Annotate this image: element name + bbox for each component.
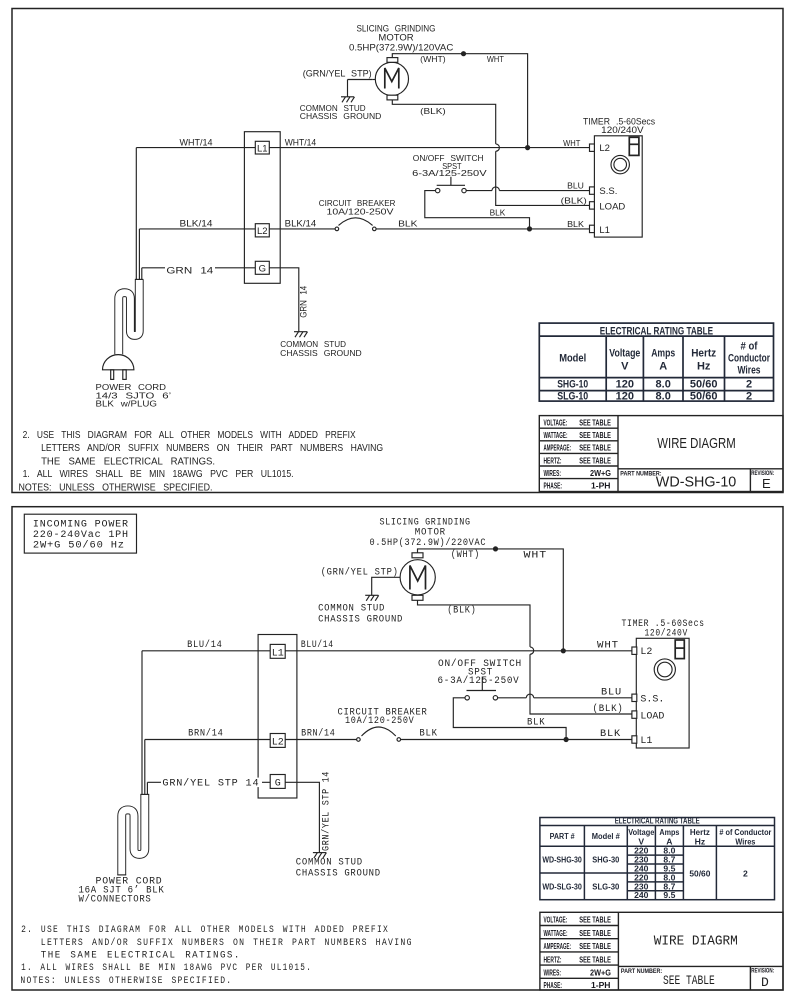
wire hop BLU over BLK (492, 187, 499, 191)
motor M2 (400, 560, 435, 595)
svg-text:AMPERAGE:: AMPERAGE: (544, 443, 572, 453)
svg-text:(BLK): (BLK) (420, 106, 446, 116)
svg-text:10A/120-250V: 10A/120-250V (327, 207, 395, 217)
circuit breaker CB2 (357, 727, 401, 741)
timer U1 body (594, 136, 642, 237)
terminal block TB1 (244, 132, 280, 284)
svg-text:NOTES: UNLESS OTHERWISE SPECIF: NOTES: UNLESS OTHERWISE SPECIFIED. (19, 482, 213, 493)
rating table panel1 text (557, 325, 770, 402)
svg-text:1-PH: 1-PH (591, 980, 611, 990)
svg-text:BLK: BLK (600, 729, 621, 740)
svg-text:(WHT): (WHT) (420, 54, 446, 64)
border frame panel 1 (12, 9, 783, 493)
svg-text:SEE TABLE: SEE TABLE (579, 443, 611, 453)
svg-text:120/240V: 120/240V (601, 125, 644, 136)
wire hop BLU over BLK p2 (526, 694, 533, 698)
svg-text:Voltage: Voltage (609, 348, 640, 360)
terminal TB2 G (270, 775, 285, 789)
svg-text:WATTAGE:: WATTAGE: (544, 928, 568, 938)
svg-text:PHASE:: PHASE: (544, 481, 563, 491)
svg-text:2W+G: 2W+G (590, 968, 611, 978)
svg-text:LOAD: LOAD (640, 711, 664, 722)
svg-text:240: 240 (634, 890, 649, 900)
svg-text:Hertz: Hertz (691, 348, 716, 360)
motor M1 (375, 62, 408, 95)
timer terminal L2 (590, 144, 595, 151)
svg-text:BLU/14: BLU/14 (301, 639, 334, 651)
motor M1 bottom terminal tab (387, 95, 398, 100)
timer terminal L1 (590, 225, 595, 232)
svg-text:BLK/14: BLK/14 (180, 219, 213, 230)
svg-text:PART NUMBER:: PART NUMBER: (621, 968, 662, 975)
title block panel1 (539, 416, 783, 492)
timer U2 body (636, 638, 689, 748)
svg-text:50/60: 50/60 (690, 390, 718, 402)
terminal TB1 L2 (255, 224, 269, 237)
svg-text:THE SAME ELECTRICAL RATINGS.: THE SAME ELECTRICAL RATINGS. (41, 456, 215, 467)
svg-text:BLU: BLU (567, 181, 584, 191)
wire BLK vertical to cord (138, 229, 140, 280)
wire BLU vertical to cord (141, 651, 143, 795)
wire BLK breaker to timer L1 (376, 228, 589, 230)
power cord tube p2 (117, 794, 149, 875)
svg-text:L1: L1 (599, 225, 610, 236)
svg-text:ELECTRICAL RATING TABLE: ELECTRICAL RATING TABLE (600, 325, 713, 337)
svg-text:0.5HP(372.9W)/120VAC: 0.5HP(372.9W)/120VAC (349, 42, 453, 53)
svg-text:A: A (659, 361, 667, 373)
timer terminal LOAD (590, 202, 595, 209)
svg-text:10A/120-250V: 10A/120-250V (345, 715, 414, 727)
svg-text:2W+G 50/60 Hz: 2W+G 50/60 Hz (33, 540, 125, 552)
wire motor WHT lead p2 (418, 549, 564, 651)
terminal TB1 L1 (255, 141, 269, 154)
wire GRN/YEL from cord to ground (147, 782, 319, 852)
notes panel1 (19, 430, 384, 494)
svg-text:BLK: BLK (419, 729, 437, 740)
terminal TB2 L1 (270, 644, 285, 658)
wire motor BLK lead (392, 100, 495, 144)
wire motor BLK lead p2 (418, 600, 531, 647)
svg-text:E: E (762, 476, 771, 491)
svg-text:(WHT): (WHT) (451, 549, 480, 561)
svg-text:SEE TABLE: SEE TABLE (579, 430, 611, 440)
svg-text:Wires: Wires (735, 837, 755, 847)
svg-text:1. ALL WIRES SHALL BE MIN 18AW: 1. ALL WIRES SHALL BE MIN 18AWG PVC PER … (21, 963, 312, 974)
svg-text:BLK: BLK (567, 219, 584, 229)
timer terminal LOAD p2 (632, 711, 637, 718)
svg-text:SHG-30: SHG-30 (592, 855, 619, 865)
on/off switch S2 (465, 677, 498, 701)
svg-text:THE SAME ELECTRICAL RATINGS.: THE SAME ELECTRICAL RATINGS. (41, 950, 241, 961)
svg-text:220-240Vac 1PH: 220-240Vac 1PH (33, 530, 129, 541)
svg-text:NOTES: UNLESS OTHERWISE SPECIF: NOTES: UNLESS OTHERWISE SPECIFIED. (20, 976, 232, 987)
timer selector rect p2 (675, 640, 684, 659)
svg-text:1. ALL WIRES SHALL BE MIN 18AW: 1. ALL WIRES SHALL BE MIN 18AWG PVC PER … (23, 469, 294, 480)
svg-text:WD-SHG-10: WD-SHG-10 (656, 475, 737, 491)
svg-text:6-3A/125-250V: 6-3A/125-250V (438, 675, 520, 687)
svg-text:G: G (259, 264, 266, 275)
wire switch left branch to BLK node (425, 191, 530, 229)
svg-text:PHASE:: PHASE: (544, 980, 563, 990)
wire BRN vertical to cord (144, 740, 146, 795)
svg-text:BRN/14: BRN/14 (301, 728, 335, 740)
svg-text:2. USE THIS DIAGRAM FOR ALL OT: 2. USE THIS DIAGRAM FOR ALL OTHER MODELS… (21, 925, 389, 936)
wire GRN 14 from cord to ground (142, 268, 299, 332)
svg-text:WATTAGE:: WATTAGE: (544, 430, 568, 440)
svg-text:SEE TABLE: SEE TABLE (579, 455, 611, 465)
svg-text:WIRES:: WIRES: (544, 468, 562, 478)
wire BRN/14 from cord to breaker (145, 739, 357, 741)
svg-text:D: D (761, 975, 769, 990)
svg-text:S.S.: S.S. (599, 186, 617, 197)
svg-text:(BLK): (BLK) (561, 196, 587, 206)
wire motor ground lead p2 (372, 577, 400, 595)
motor M2 top terminal tab (412, 553, 423, 558)
title block panel2 (540, 912, 783, 990)
svg-text:WHT: WHT (597, 640, 619, 651)
svg-text:2. USE THIS DIAGRAM FOR ALL OT: 2. USE THIS DIAGRAM FOR ALL OTHER MODELS… (23, 430, 356, 441)
wire motor ground lead (372, 79, 375, 81)
svg-text:LOAD: LOAD (599, 201, 625, 212)
svg-text:BLU/14: BLU/14 (187, 639, 222, 651)
svg-text:WHT/14: WHT/14 (285, 138, 317, 149)
svg-text:CHASSIS GROUND: CHASSIS GROUND (300, 111, 382, 121)
wire GRN vertical to cord (141, 268, 143, 280)
svg-text:Wires: Wires (738, 365, 761, 377)
svg-text:6-3A/125-250V: 6-3A/125-250V (412, 168, 487, 178)
svg-text:120: 120 (616, 379, 634, 391)
junction dot WHT node (525, 145, 530, 150)
timer terminal SS p2 (632, 694, 637, 701)
svg-text:50/60: 50/60 (689, 869, 710, 879)
svg-text:WHT/14: WHT/14 (180, 138, 213, 149)
on/off switch S1 (436, 177, 467, 193)
wire WHT vertical to cord (135, 148, 137, 280)
motor M1 top terminal tab (387, 58, 398, 63)
svg-text:2: 2 (746, 379, 752, 391)
svg-text:(GRN/YEL STP): (GRN/YEL STP) (303, 68, 372, 78)
svg-text:SLG-10: SLG-10 (557, 390, 588, 402)
svg-text:120: 120 (616, 390, 634, 402)
wire BLU switch to timer SS p2 (498, 697, 527, 699)
terminal block TB2 (258, 635, 297, 799)
svg-text:8.0: 8.0 (656, 379, 671, 391)
wire switch left branch to BLK node p2 (453, 698, 566, 740)
svg-text:CHASSIS GROUND: CHASSIS GROUND (296, 868, 381, 879)
wire BLK lead to LOAD (496, 151, 590, 205)
incoming power box (24, 514, 136, 553)
svg-text:BLK: BLK (490, 208, 506, 218)
svg-text:BLK: BLK (398, 219, 418, 229)
wire GRN vertical to cord p2 (146, 782, 148, 794)
svg-text:50/60: 50/60 (690, 379, 718, 391)
svg-text:COMMON STUD: COMMON STUD (296, 858, 363, 869)
svg-text:HERTZ:: HERTZ: (544, 455, 562, 465)
notes panel2 (20, 925, 412, 987)
wire BLK lead to LOAD p2 (530, 654, 632, 714)
timer terminal SS (590, 187, 595, 194)
timer selector rect (629, 137, 639, 155)
plug body (103, 355, 134, 370)
svg-text:WHT: WHT (563, 138, 580, 148)
svg-text:L2: L2 (640, 647, 652, 658)
svg-text:Model: Model (559, 353, 586, 365)
svg-text:BLK: BLK (527, 718, 545, 729)
wire motor WHT lead (392, 54, 527, 148)
circuit breaker CB1 (335, 218, 376, 231)
svg-text:SHG-10: SHG-10 (557, 379, 588, 391)
svg-text:Amps: Amps (651, 348, 675, 360)
svg-text:Hz: Hz (697, 361, 711, 373)
svg-text:8.0: 8.0 (656, 390, 671, 402)
wire BLU/14 from cord to timer L2 (142, 650, 632, 652)
svg-text:2W+G: 2W+G (590, 468, 611, 478)
plug prong left (111, 370, 114, 380)
svg-text:V: V (621, 361, 629, 373)
svg-text:SEE TABLE: SEE TABLE (663, 974, 715, 988)
power cord tube (119, 279, 144, 354)
svg-text:9.5: 9.5 (663, 890, 675, 900)
junction dot motor WHT splice p2 (493, 546, 498, 551)
svg-text:WHT: WHT (524, 551, 548, 562)
wire BLU switch to timer SS (466, 190, 492, 192)
svg-text:1-PH: 1-PH (591, 481, 611, 491)
motor M2 bottom terminal tab (412, 595, 423, 600)
chassis ground symbol left (341, 97, 355, 103)
svg-text:GRN/YEL STP 14: GRN/YEL STP 14 (162, 778, 259, 790)
svg-text:2: 2 (743, 869, 748, 879)
timer terminal L2 p2 (632, 647, 637, 654)
border frame panel 2 (12, 507, 783, 990)
svg-text:L2: L2 (257, 226, 268, 237)
chassis ground symbol left p2 (365, 595, 379, 601)
svg-text:Model #: Model # (592, 831, 620, 841)
svg-text:LETTERS AND/OR SUFFIX NUMBERS: LETTERS AND/OR SUFFIX NUMBERS ON THEIR P… (41, 443, 383, 454)
svg-text:AMPERAGE:: AMPERAGE: (544, 941, 572, 951)
svg-text:120/240V: 120/240V (645, 628, 688, 640)
wire hop BLK over WHT p2 (530, 647, 534, 654)
svg-text:BLK w/PLUG: BLK w/PLUG (96, 398, 158, 408)
wire hop BLK over WHT (496, 144, 500, 151)
svg-text:L2: L2 (599, 143, 610, 154)
junction dot motor WHT splice (461, 51, 466, 56)
svg-text:L1: L1 (640, 736, 652, 747)
terminal TB2 L2 (270, 734, 285, 748)
svg-text:BLU: BLU (601, 687, 622, 698)
svg-text:(BLK): (BLK) (447, 604, 476, 616)
svg-text:WD-SLG-30: WD-SLG-30 (542, 881, 582, 891)
label GRN 14 (165, 266, 215, 277)
title block panel2 text (544, 915, 775, 991)
svg-text:WHT: WHT (487, 54, 504, 64)
svg-text:LETTERS AND/OR SUFFIX NUMBERS: LETTERS AND/OR SUFFIX NUMBERS ON THEIR P… (41, 937, 413, 949)
svg-text:Conductor: Conductor (728, 353, 771, 365)
junction dot BLK node p2 (564, 737, 569, 742)
svg-text:INCOMING POWER: INCOMING POWER (33, 519, 129, 530)
timer knob (611, 155, 629, 173)
svg-text:# of: # of (741, 341, 758, 353)
motor M1 letter (385, 68, 399, 89)
svg-text:ELECTRICAL RATING TABLE: ELECTRICAL RATING TABLE (615, 816, 700, 826)
svg-text:COMMON STUD: COMMON STUD (318, 604, 385, 615)
svg-text:(BLK): (BLK) (593, 703, 624, 715)
chassis ground symbol right (294, 332, 308, 338)
svg-text:L1: L1 (257, 143, 268, 154)
wire BLK breaker to timer L1 (401, 739, 632, 741)
svg-text:CHASSIS GROUND: CHASSIS GROUND (318, 615, 403, 626)
wire BLK/14 from cord to breaker (139, 228, 335, 230)
svg-text:VOLTAGE:: VOLTAGE: (544, 418, 568, 428)
junction dot WHT node p2 (561, 648, 566, 653)
svg-text:BRN/14: BRN/14 (188, 728, 223, 740)
plug prong right (123, 370, 126, 380)
svg-text:BLK/14: BLK/14 (285, 219, 317, 230)
svg-text:SEE TABLE: SEE TABLE (579, 941, 611, 951)
svg-text:GRN 14: GRN 14 (299, 286, 310, 318)
svg-text:GRN/YEL STP 14: GRN/YEL STP 14 (321, 771, 333, 851)
timer terminal L1 p2 (632, 736, 637, 743)
rating table panel1 (539, 323, 773, 401)
timer knob p2 (654, 659, 675, 680)
svg-text:HERTZ:: HERTZ: (544, 954, 562, 964)
motor M2 letter (410, 566, 426, 590)
svg-text:WIRE DIAGRM: WIRE DIAGRM (654, 934, 738, 950)
title block panel1 text (544, 418, 775, 492)
rating table panel2 text (542, 816, 772, 901)
svg-text:REVISION:: REVISION: (751, 967, 774, 974)
svg-text:0.5HP(372.9W)/220VAC: 0.5HP(372.9W)/220VAC (370, 537, 487, 549)
svg-text:2: 2 (746, 390, 752, 402)
svg-text:L2: L2 (272, 737, 284, 748)
svg-text:W/CONNECTORS: W/CONNECTORS (79, 894, 152, 906)
rating table panel2 (540, 818, 775, 900)
svg-text:WD-SHG-30: WD-SHG-30 (542, 855, 582, 865)
svg-text:SLG-30: SLG-30 (592, 881, 619, 891)
svg-text:L1: L1 (272, 648, 284, 659)
svg-text:GRN 14: GRN 14 (166, 266, 213, 277)
svg-text:Hz: Hz (695, 837, 706, 847)
svg-text:PART #: PART # (550, 831, 575, 841)
wire WHT/14 from cord to timer L2 (136, 147, 589, 149)
svg-text:SEE TABLE: SEE TABLE (579, 928, 611, 938)
svg-text:SEE TABLE: SEE TABLE (579, 915, 611, 925)
svg-text:SEE TABLE: SEE TABLE (579, 954, 611, 964)
svg-text:G: G (275, 778, 281, 789)
svg-text:SEE TABLE: SEE TABLE (579, 418, 611, 428)
label GRN/YEL STP 14 (161, 778, 262, 790)
svg-text:WIRES:: WIRES: (544, 968, 562, 978)
junction dot BLK node (527, 226, 532, 231)
terminal TB1 G (255, 261, 269, 274)
svg-text:VOLTAGE:: VOLTAGE: (544, 915, 568, 925)
svg-text:S.S.: S.S. (640, 694, 664, 705)
chassis ground symbol right p2 (313, 853, 327, 859)
svg-text:WIRE DIAGRM: WIRE DIAGRM (657, 436, 735, 452)
svg-text:CHASSIS GROUND: CHASSIS GROUND (280, 348, 362, 358)
